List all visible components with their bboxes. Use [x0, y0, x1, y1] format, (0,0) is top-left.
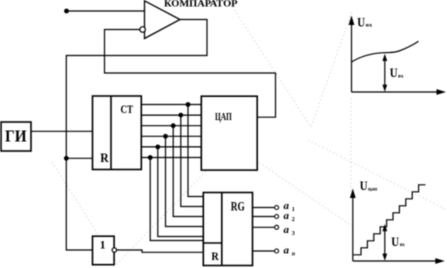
svg-text:U: U — [360, 178, 368, 193]
svg-text:ЦАП: ЦАП — [215, 112, 232, 123]
svg-text:3: 3 — [292, 231, 295, 237]
svg-text:КОМПАРАТОР: КОМПАРАТОР — [164, 0, 238, 9]
svg-text:U: U — [357, 14, 365, 29]
svg-text:U: U — [390, 65, 398, 80]
svg-text:R: R — [100, 151, 109, 165]
svg-text:цап: цап — [368, 186, 378, 192]
svg-text:a: a — [284, 224, 290, 236]
svg-text:ГИ: ГИ — [5, 127, 27, 146]
svg-text:вх: вх — [398, 73, 404, 79]
svg-text:a: a — [284, 244, 290, 256]
svg-text:a: a — [284, 210, 290, 222]
svg-text:вх: вх — [400, 242, 405, 248]
svg-text:1: 1 — [100, 239, 106, 251]
svg-text:RG: RG — [231, 200, 245, 214]
svg-text:U: U — [391, 234, 399, 249]
svg-text:2: 2 — [292, 217, 295, 223]
svg-text:1: 1 — [292, 207, 295, 213]
svg-text:вх: вх — [366, 22, 373, 28]
svg-text:СТ: СТ — [121, 102, 134, 116]
svg-text:R: R — [211, 249, 219, 263]
